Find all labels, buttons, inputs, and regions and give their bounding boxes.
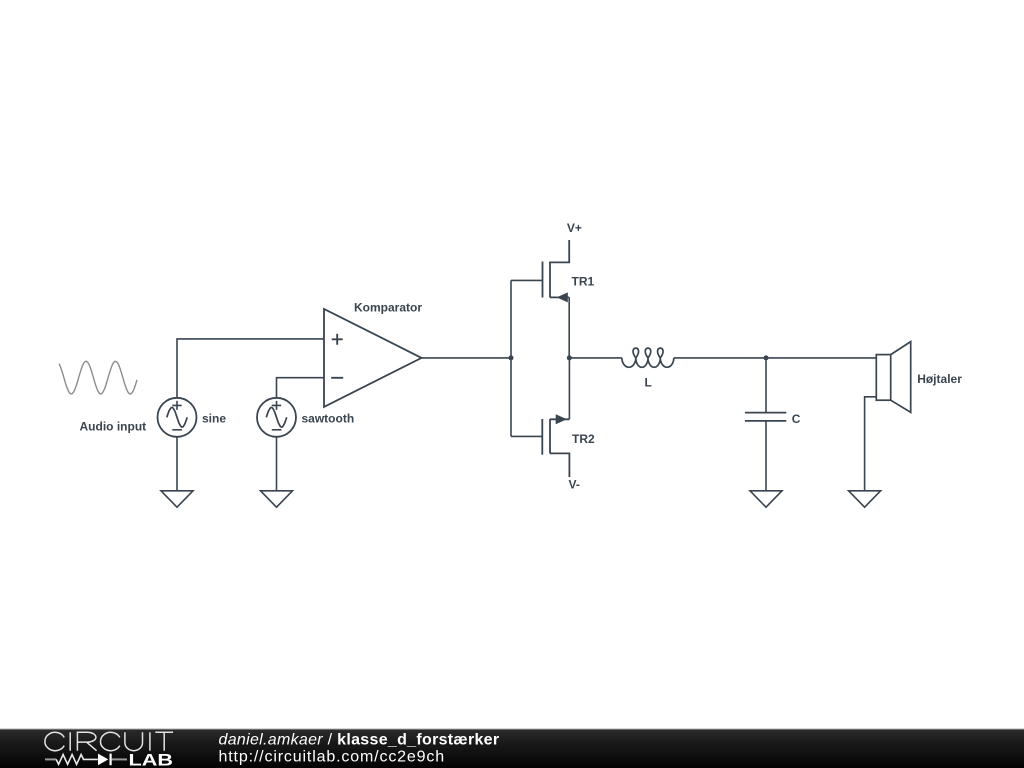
svg-text:L: L <box>645 376 652 390</box>
svg-text:TR1: TR1 <box>572 275 595 289</box>
svg-text:sine: sine <box>202 411 226 425</box>
svg-text:V-: V- <box>569 478 580 492</box>
svg-text:Audio input: Audio input <box>80 420 147 434</box>
svg-text:TR2: TR2 <box>572 432 595 446</box>
svg-text:C: C <box>792 412 801 426</box>
svg-text:sawtooth: sawtooth <box>302 411 355 425</box>
svg-text:V+: V+ <box>567 221 582 235</box>
svg-text:Komparator: Komparator <box>354 301 422 315</box>
svg-text:LAB: LAB <box>129 751 174 768</box>
svg-text:http://circuitlab.com/cc2e9ch: http://circuitlab.com/cc2e9ch <box>219 749 446 766</box>
svg-text:daniel.amkaer / klasse_d_forst: daniel.amkaer / klasse_d_forstærker <box>219 731 500 748</box>
svg-text:Højtaler: Højtaler <box>917 372 962 386</box>
